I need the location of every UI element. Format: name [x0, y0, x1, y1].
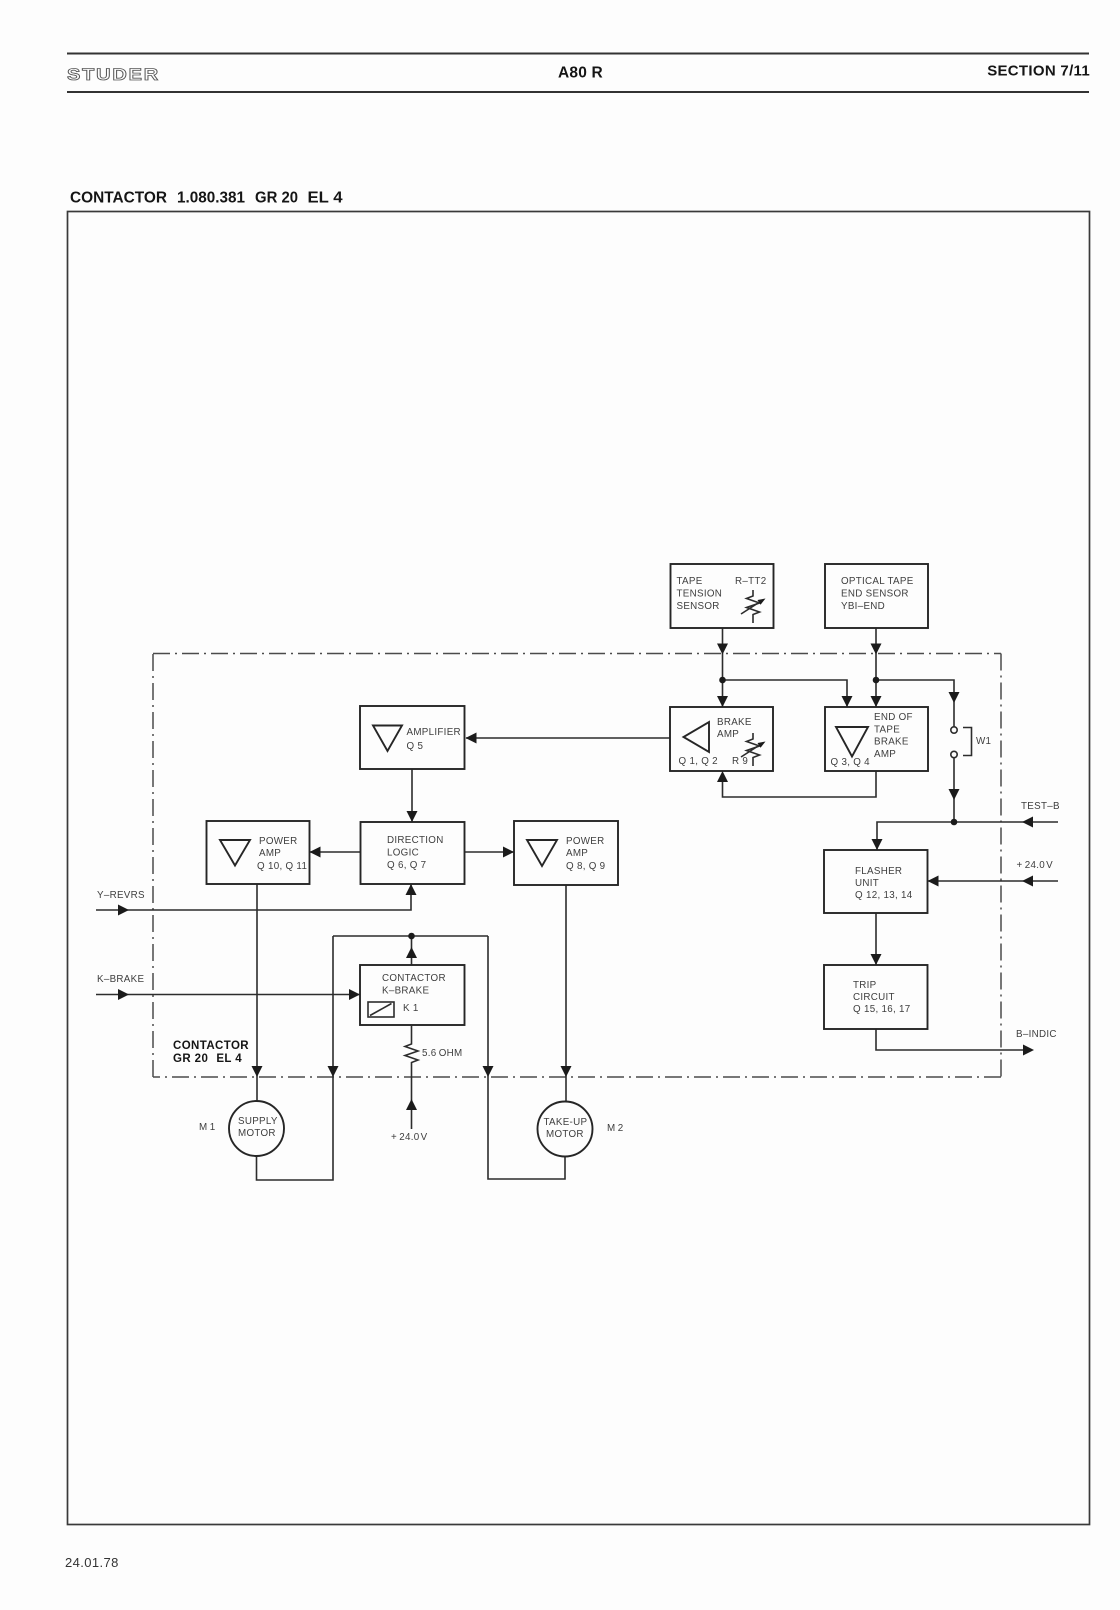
svg-text:EL 4: EL 4	[308, 190, 343, 207]
block OPTICAL TAPE END SENSOR	[825, 564, 928, 628]
arrow down tape sensor line at boundary	[717, 644, 728, 655]
svg-text:SENSOR: SENSOR	[677, 601, 720, 612]
header top rule	[67, 53, 1089, 55]
svg-text:TAKE-UP: TAKE-UP	[544, 1117, 588, 1128]
wire rail to take-up motor return loop	[488, 936, 565, 1179]
svg-text:POWER: POWER	[259, 836, 298, 847]
wire node to switch W1	[876, 680, 954, 727]
svg-text:1.080.381: 1.080.381	[177, 190, 245, 207]
arrow down optical line at boundary	[871, 644, 882, 655]
wire power amp Q10 to supply motor	[256, 884, 258, 1101]
relay coil K1	[368, 1002, 419, 1017]
svg-text:GR 20 EL 4: GR 20 EL 4	[173, 1053, 242, 1065]
arrow down into end-of-tape amp right	[871, 696, 882, 707]
block TAPE TENSION SENSOR	[671, 564, 774, 628]
variable resistor R9	[741, 733, 766, 766]
wire flasher unit to trip circuit	[875, 913, 877, 965]
svg-text:R: R	[592, 65, 603, 82]
svg-text:Q 6, Q 7: Q 6, Q 7	[387, 860, 426, 871]
arrow down W1 lower	[949, 789, 960, 800]
arrow down take-up return at boundary	[483, 1066, 494, 1077]
svg-text:YBI–END: YBI–END	[841, 601, 885, 612]
wire contactor rail	[333, 935, 488, 937]
svg-text:CONTACTOR: CONTACTOR	[382, 973, 446, 984]
arrow right into contactor	[349, 989, 360, 1000]
svg-text:M 1: M 1	[199, 1122, 215, 1133]
svg-text:UNIT: UNIT	[855, 878, 879, 889]
svg-text:M 2: M 2	[607, 1123, 623, 1134]
svg-text:BRAKE: BRAKE	[717, 717, 752, 728]
dashed boundary bottom	[153, 1076, 1001, 1078]
svg-text:K 1: K 1	[403, 1003, 419, 1014]
svg-text:Q 10, Q 11: Q 10, Q 11	[257, 861, 307, 872]
arrow left into flasher unit	[928, 876, 939, 887]
svg-text:GR 20: GR 20	[255, 190, 298, 207]
arrow right K-BRAKE	[118, 989, 129, 1000]
svg-text:TEST–B: TEST–B	[1021, 801, 1060, 812]
svg-text:+ 24.0 V: + 24.0 V	[1017, 860, 1054, 871]
block BRAKE AMP Q1 Q2	[670, 707, 773, 771]
wire end-of-tape amp feedback to brake amp	[723, 771, 877, 797]
block FLASHER UNIT Q12 Q13 Q14	[824, 850, 928, 913]
arrow down supply return at boundary	[328, 1066, 339, 1077]
variable resistor R-TT2	[741, 590, 766, 623]
svg-text:TAPE: TAPE	[677, 576, 703, 587]
arrow up into direction logic bottom	[406, 884, 417, 895]
svg-text:24.01.78: 24.01.78	[65, 1555, 119, 1570]
arrow left into amplifier Q5	[466, 733, 477, 744]
svg-text:FLASHER: FLASHER	[855, 866, 902, 877]
svg-text:CONTACTOR: CONTACTOR	[173, 1040, 249, 1052]
svg-text:R–TT2: R–TT2	[735, 576, 766, 587]
svg-text:AMP: AMP	[717, 729, 739, 740]
motor M2 TAKE-UP MOTOR	[538, 1102, 593, 1157]
wire +24.0V input to flasher unit	[928, 880, 1059, 882]
svg-text:MOTOR: MOTOR	[238, 1128, 276, 1139]
arrow down into end-of-tape amp left	[842, 696, 853, 707]
svg-text:+ 24.0 V: + 24.0 V	[391, 1132, 428, 1143]
svg-text:END OF: END OF	[874, 712, 913, 723]
resistor 5.6 OHM	[405, 1025, 463, 1064]
arrow right into power amp Q8	[503, 847, 514, 858]
arrow down into flasher unit	[872, 839, 883, 850]
svg-text:LOGIC: LOGIC	[387, 848, 419, 859]
svg-text:STUDER: STUDER	[67, 66, 160, 84]
arrow down into brake amp	[717, 696, 728, 707]
block CONTACTOR K-BRAKE	[360, 965, 465, 1025]
svg-text:BRAKE: BRAKE	[874, 737, 909, 748]
wire supply motor return loop	[257, 936, 334, 1180]
junction node TEST-B	[951, 819, 958, 826]
svg-text:OPTICAL TAPE: OPTICAL TAPE	[841, 576, 914, 587]
motor M1 SUPPLY MOTOR	[229, 1101, 284, 1156]
svg-text:CIRCUIT: CIRCUIT	[853, 992, 895, 1003]
wire Y-REVRS input to direction logic	[96, 885, 411, 910]
svg-text:MOTOR: MOTOR	[546, 1129, 584, 1140]
svg-text:K–BRAKE: K–BRAKE	[382, 986, 429, 997]
arrow up contactor to rail	[406, 947, 417, 958]
svg-text:K–BRAKE: K–BRAKE	[97, 974, 144, 985]
svg-text:Q 15, 16, 17: Q 15, 16, 17	[853, 1004, 911, 1015]
svg-text:AMP: AMP	[566, 848, 588, 859]
wire trip circuit to B-INDIC output	[876, 1029, 1030, 1050]
wire power amp Q8 to take-up motor	[565, 885, 567, 1102]
svg-text:AMP: AMP	[259, 848, 281, 859]
wire TEST-B input to flasher unit	[877, 822, 1058, 850]
arrow right Y-REVRS	[118, 905, 129, 916]
wire direction logic to power amp Q8 Q9	[465, 851, 514, 853]
wire W1 to TEST-B net	[953, 758, 955, 822]
svg-text:DIRECTION: DIRECTION	[387, 835, 444, 846]
wire +24.0V supply through 5.6 ohm	[411, 1064, 413, 1129]
svg-text:END SENSOR: END SENSOR	[841, 589, 909, 600]
wire K-BRAKE input to contactor	[96, 994, 360, 996]
arrow up into brake amp bottom	[717, 771, 728, 782]
svg-text:TAPE: TAPE	[874, 725, 900, 736]
wire direction logic to power amp Q10 Q11	[310, 851, 360, 853]
arrow down supply motor line at boundary	[252, 1066, 263, 1077]
dashed boundary left	[152, 654, 154, 1078]
wire brake amp to amplifier Q5	[466, 737, 670, 739]
svg-text:AMP: AMP	[874, 749, 896, 760]
wire amplifier Q5 to direction logic	[411, 769, 413, 822]
dashed boundary right	[1000, 654, 1002, 1078]
outer frame	[68, 212, 1090, 1525]
svg-text:5.6 OHM: 5.6 OHM	[422, 1048, 463, 1059]
wire node to end-of-tape amp input	[723, 680, 848, 707]
svg-text:A80: A80	[558, 65, 587, 82]
block END OF TAPE BRAKE AMP Q3 Q4	[825, 707, 928, 771]
arrow down into direction logic	[407, 811, 418, 822]
svg-text:CONTACTOR: CONTACTOR	[70, 190, 167, 207]
svg-text:POWER: POWER	[566, 836, 605, 847]
dashed boundary CONTACTOR GR 20 EL 4 top	[153, 653, 1001, 655]
junction node contactor rail	[408, 933, 415, 940]
arrow down into trip circuit	[871, 954, 882, 965]
svg-text:Y–REVRS: Y–REVRS	[97, 890, 145, 901]
arrow up +24.0V feed	[406, 1099, 417, 1110]
arrow right B-INDIC	[1023, 1045, 1034, 1056]
svg-text:W1: W1	[976, 736, 991, 747]
svg-text:Q 1, Q 2: Q 1, Q 2	[679, 756, 718, 767]
svg-text:AMPLIFIER: AMPLIFIER	[407, 727, 461, 738]
svg-text:B–INDIC: B–INDIC	[1016, 1029, 1057, 1040]
block DIRECTION LOGIC Q6 Q7	[361, 822, 465, 884]
block AMPLIFIER Q5	[360, 706, 465, 769]
arrow down take-up motor line at boundary	[561, 1066, 572, 1077]
wire contactor to rail	[411, 936, 413, 965]
header bottom rule	[67, 91, 1089, 93]
svg-text:Q 3, Q 4: Q 3, Q 4	[831, 757, 871, 768]
wire optical sensor to end-of-tape amp	[875, 628, 877, 707]
svg-text:SUPPLY: SUPPLY	[238, 1116, 278, 1127]
svg-text:TRIP: TRIP	[853, 980, 877, 991]
block TRIP CIRCUIT Q15 Q16 Q17	[824, 965, 928, 1029]
arrow left TEST-B	[1022, 817, 1033, 828]
svg-text:TENSION: TENSION	[677, 589, 723, 600]
arrow left +24.0V	[1022, 876, 1033, 887]
junction node optical sensor	[873, 677, 880, 684]
svg-text:Q 5: Q 5	[407, 741, 424, 752]
switch W1	[951, 727, 991, 758]
wire tape tension sensor to brake amp	[722, 628, 724, 707]
block POWER AMP Q8 Q9	[514, 821, 618, 885]
svg-text:R 9: R 9	[732, 756, 748, 767]
arrow down W1 upper	[949, 692, 960, 703]
block POWER AMP Q10 Q11	[207, 821, 310, 884]
arrow left into power amp Q10	[310, 847, 321, 858]
svg-text:Q 8, Q 9: Q 8, Q 9	[566, 861, 605, 872]
junction node tape sensor	[719, 677, 726, 684]
svg-text:Q 12, 13, 14: Q 12, 13, 14	[855, 890, 913, 901]
svg-text:SECTION 7/11: SECTION 7/11	[987, 63, 1090, 80]
